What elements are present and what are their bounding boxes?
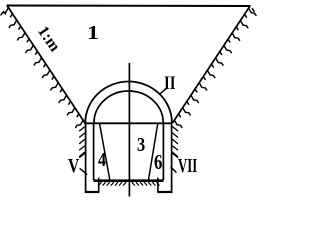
- tunnel inner arch lining: [94, 91, 163, 123]
- left wall outer line: [85, 123, 87, 193]
- left wall inner line: [93, 123, 95, 180]
- label 1:m slope ratio: [34, 24, 62, 54]
- label VII (right wall part): [178, 156, 197, 176]
- ground surface top line: [7, 5, 251, 8]
- tunnel outer arch lining: [85, 82, 172, 123]
- left slant divider (part 4/1 boundary): [100, 124, 110, 181]
- right slant divider (part 3/6 boundary): [148, 124, 157, 181]
- right slope line: [173, 6, 251, 123]
- label V (left wall part): [68, 156, 79, 176]
- invert ground hatch: [99, 182, 102, 185]
- left footing bottom: [85, 191, 100, 193]
- label 6 (right side part): [154, 152, 162, 173]
- label II (arch part): [164, 74, 176, 93]
- leader line for V: [80, 168, 88, 174]
- right wall inner line: [162, 123, 164, 180]
- left slope hatch corner tick: [3, 11, 6, 15]
- left slope soil hatch: [1, 8, 9, 16]
- label 4 (left side part): [98, 150, 106, 170]
- right slope hatch corner tick: [252, 8, 255, 12]
- leader line for II: [160, 88, 167, 94]
- leader line for VII: [171, 167, 177, 173]
- tunnel centerline: [128, 63, 130, 197]
- left slope line: [7, 6, 85, 124]
- right wall outer line: [171, 123, 173, 193]
- right wall outside soil hatch: [172, 127, 178, 132]
- label 1 (open cut part): [87, 23, 99, 43]
- invert strut line: [94, 179, 164, 182]
- arch springing line: [84, 122, 173, 124]
- left footing inner edge: [98, 178, 100, 193]
- right footing bottom: [158, 191, 173, 193]
- right slope soil hatch: [249, 8, 257, 16]
- label 3 (core part): [137, 135, 145, 155]
- left wall outside soil hatch: [79, 127, 85, 132]
- right footing inner edge: [157, 178, 159, 193]
